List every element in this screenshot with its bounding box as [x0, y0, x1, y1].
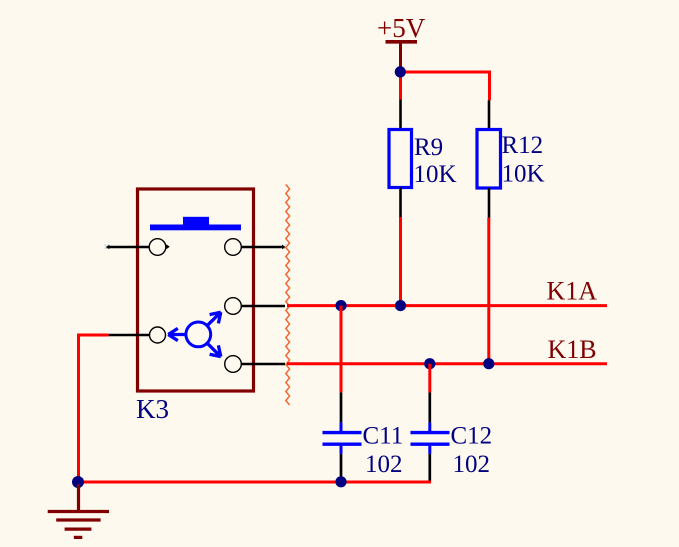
svg-text:K1B: K1B	[548, 335, 597, 364]
wire pin 1 stub	[106, 246, 149, 249]
wire pin B stub	[242, 363, 286, 366]
svg-text:102: 102	[365, 451, 403, 478]
junction ground / left wire	[72, 476, 84, 488]
svg-text:C11: C11	[363, 423, 404, 450]
no-ERC cross left	[105, 244, 109, 248]
K3 pin 1 circle (top-left)	[149, 239, 166, 256]
svg-text:C12: C12	[451, 423, 493, 450]
junction K1A / R9	[395, 300, 406, 311]
wire pin common stub	[109, 334, 150, 337]
K3 pin common circle (mid-left)	[150, 327, 166, 343]
capacitor C11	[323, 392, 404, 481]
K3 rotary selector circle	[186, 322, 211, 347]
wire R12 to K1B	[487, 218, 490, 364]
wire common pin horizontal	[77, 334, 109, 337]
wire pin 2 stub	[242, 246, 286, 249]
junction K1B / C12	[424, 358, 435, 369]
svg-text:R12: R12	[502, 132, 544, 159]
K3 pin A circle (right upper)	[225, 298, 242, 315]
K3 rotary arrow upper-right	[207, 312, 221, 325]
svg-text:10K: 10K	[414, 161, 457, 188]
svg-text:R9: R9	[414, 134, 443, 161]
wire +5V down to R9	[399, 72, 402, 100]
pin end arrow left	[106, 245, 109, 249]
no-ERC cross right	[282, 244, 286, 248]
sheet-break zigzag marker	[286, 185, 290, 406]
wire +5V horizontal top	[401, 71, 490, 74]
wire K1B down to C12	[428, 364, 431, 393]
K3 pin B circle (right lower)	[225, 356, 242, 373]
capacitor C12	[411, 392, 493, 481]
K3 pin 2 circle (top-right)	[225, 239, 242, 256]
wire pin A stub	[242, 305, 286, 308]
junction K1A / C11	[335, 300, 346, 311]
junction K1B / R12	[483, 358, 494, 369]
K3 pushbutton symbol	[150, 217, 241, 231]
wire ground horizontal	[79, 481, 432, 484]
wire +5V down to R12	[488, 71, 491, 101]
wire common pin to ground (left vertical)	[77, 335, 80, 482]
resistor R12	[477, 100, 545, 217]
wire net K1B	[287, 362, 607, 365]
svg-text:10K: 10K	[502, 161, 545, 188]
K3 rotary arrow left	[168, 328, 186, 340]
relay K3 body	[138, 189, 254, 391]
resistor R9	[389, 100, 457, 218]
wire net K1A	[287, 304, 607, 307]
wire K1A down to C11	[340, 306, 343, 393]
power +5V symbol	[377, 13, 426, 71]
svg-text:K1A: K1A	[547, 277, 598, 306]
pin end arrow right	[282, 245, 285, 249]
svg-text:+5V: +5V	[377, 13, 426, 43]
svg-text:K3: K3	[136, 394, 169, 424]
svg-text:102: 102	[453, 451, 491, 478]
K3 rotary arrow lower-right	[207, 343, 221, 356]
junction +5V node	[395, 66, 406, 77]
wire R9 to K1A	[399, 217, 402, 306]
ground symbol	[48, 484, 109, 537]
junction ground / C11	[335, 476, 346, 487]
K3 pin 1 arrow	[166, 244, 170, 249]
